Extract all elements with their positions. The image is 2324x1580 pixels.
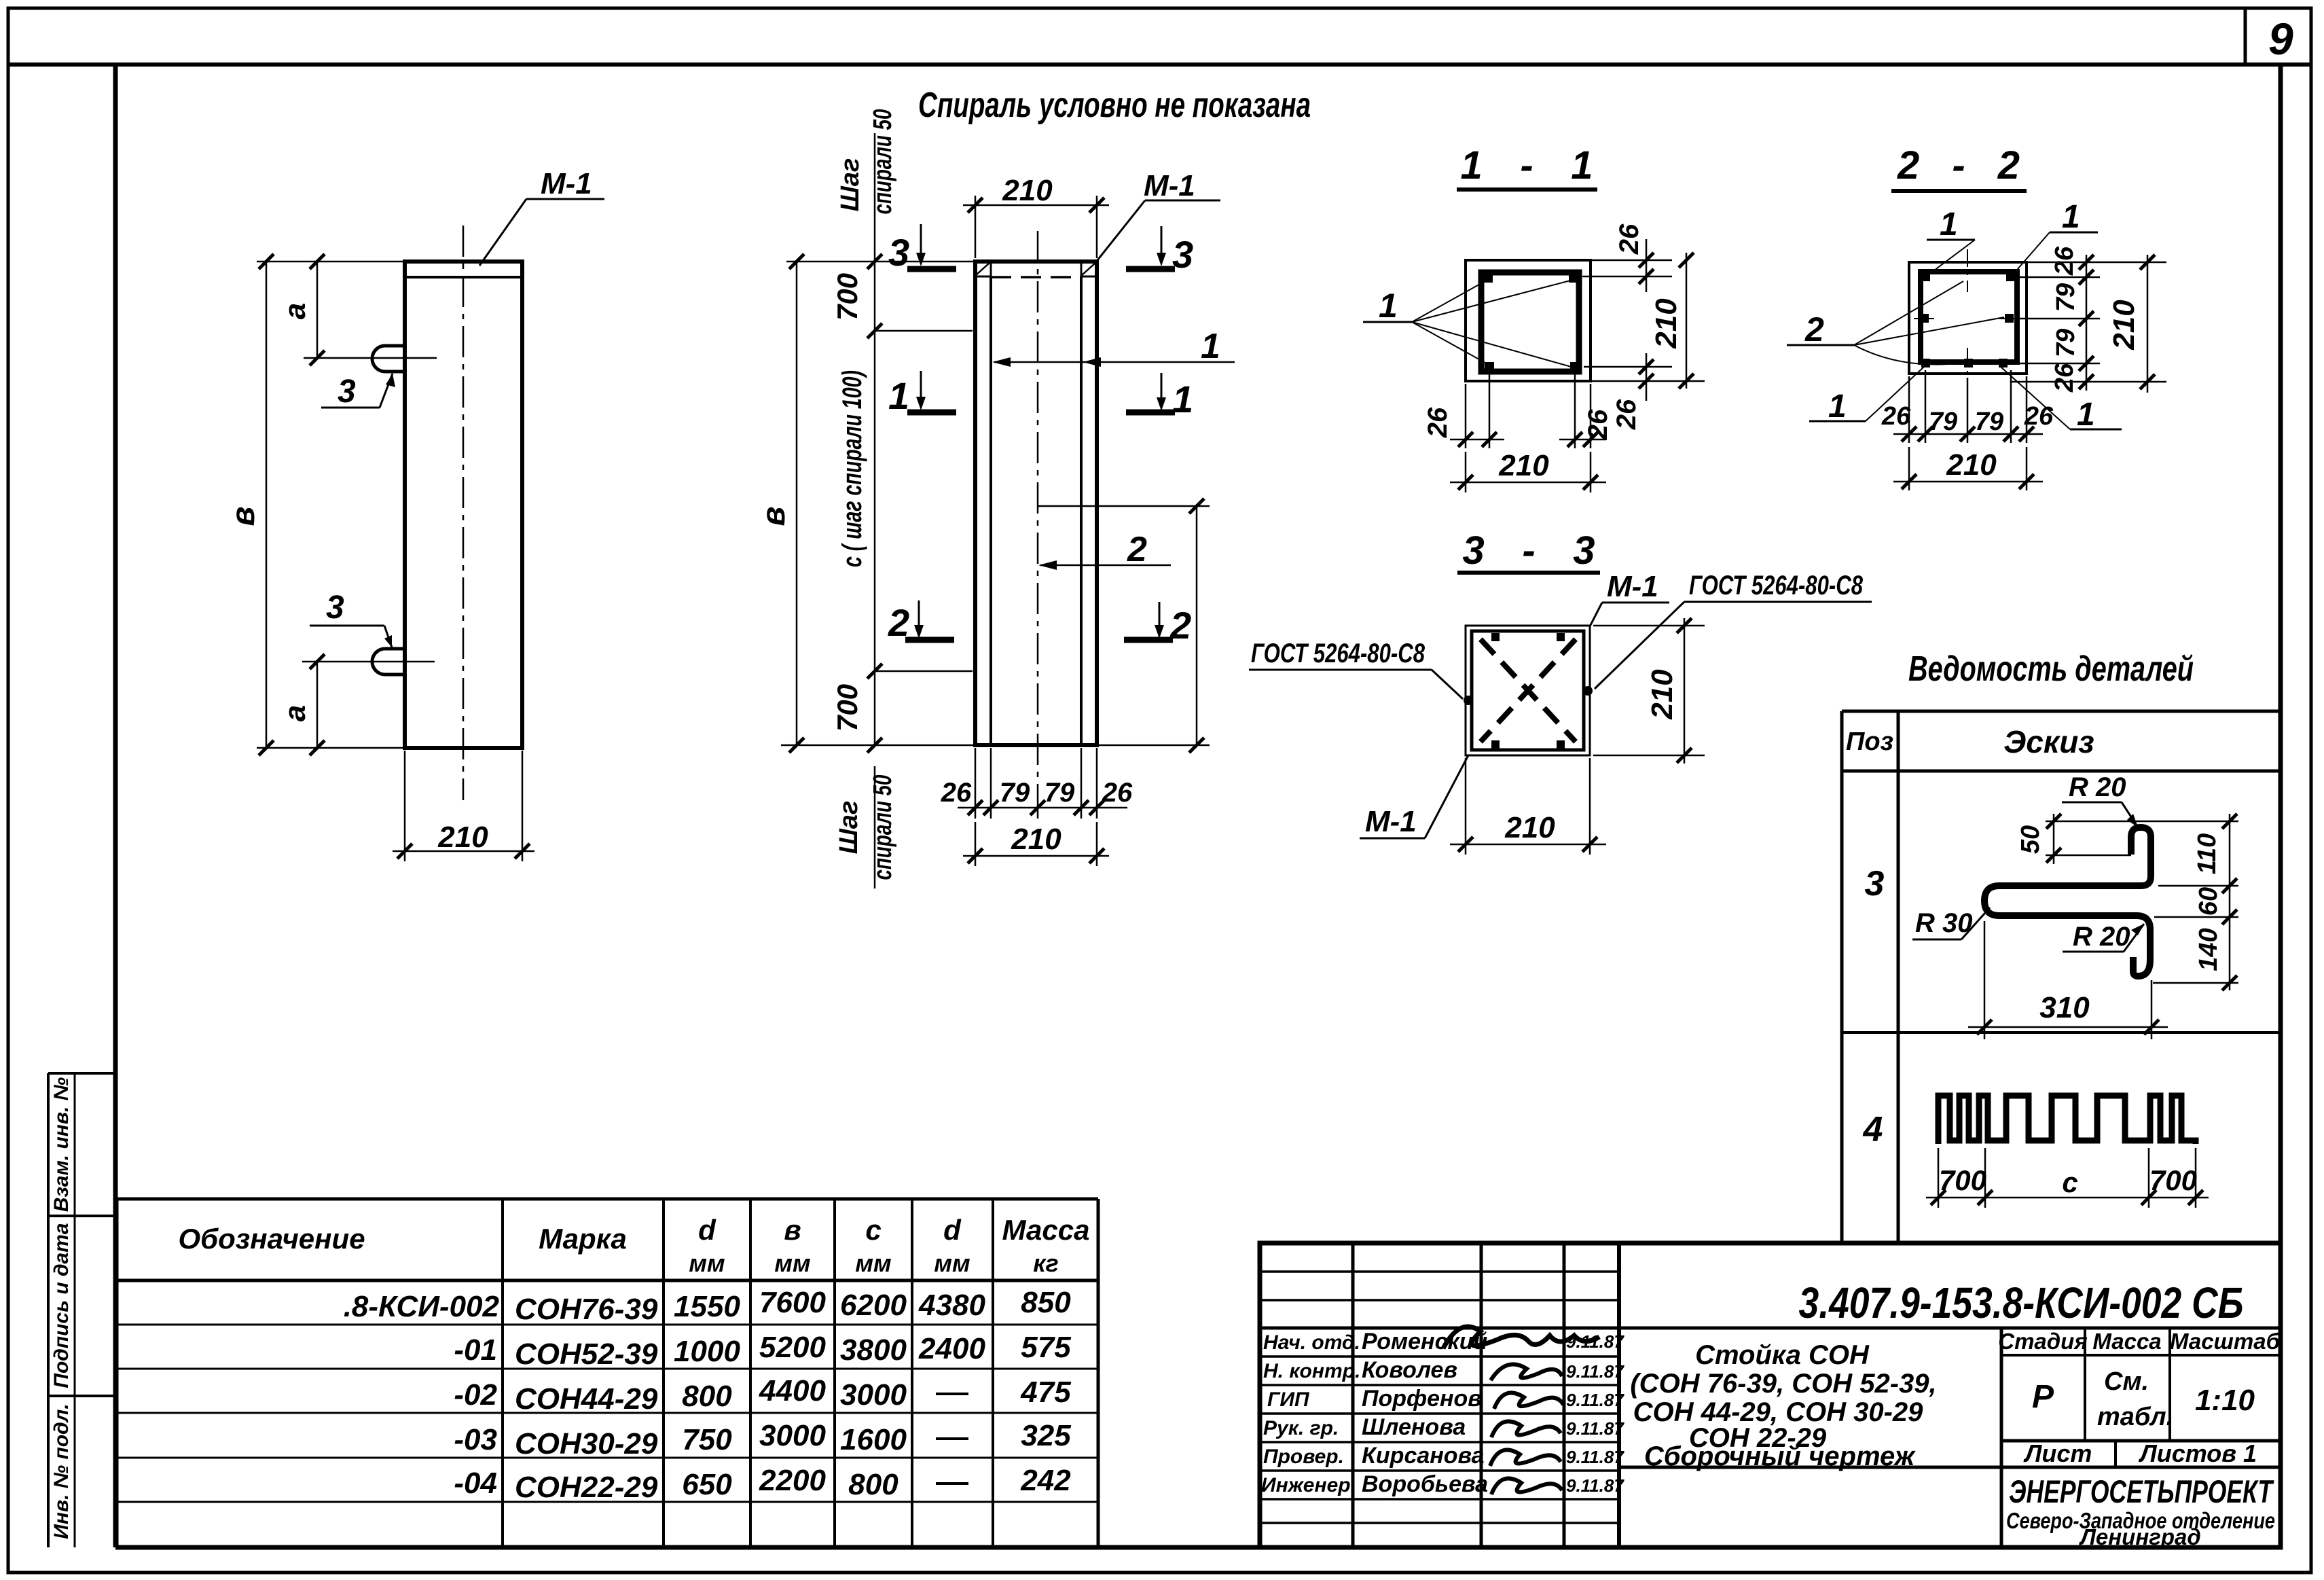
section 1-1 label 1 leaders [1363, 279, 1574, 367]
svg-text:-02: -02 [454, 1378, 497, 1412]
dimension 700 upper (side view) [831, 254, 973, 338]
margin stamp boxes outline [48, 1073, 115, 1547]
section 2-2 dimension 210 bottom [1893, 447, 2043, 490]
svg-text:9.11.87: 9.11.87 [1566, 1361, 1624, 1382]
signature scribble Порфенов [1494, 1393, 1563, 1409]
specification header d мм [689, 1214, 725, 1277]
dimension 210 (front view bottom) [393, 751, 534, 861]
svg-text:26: 26 [2024, 402, 2054, 431]
signature row Провер. [1263, 1443, 1624, 1469]
signature row Нач. отд. [1263, 1329, 1624, 1354]
svg-text:М-1: М-1 [541, 167, 592, 200]
svg-text:СОН44-29: СОН44-29 [515, 1382, 658, 1416]
side view M-1 plate left end [975, 262, 991, 276]
svg-text:800: 800 [682, 1380, 732, 1413]
section marker 2 left [888, 600, 954, 644]
svg-text:Ленинград: Ленинград [2079, 1524, 2201, 1549]
section 1-1 title [1457, 143, 1597, 190]
section 1-1 dimension 26 bottom right-2 [1559, 374, 1613, 448]
side view M-1 plate right end [1081, 262, 1097, 276]
svg-text:Подпись и дата: Подпись и дата [50, 1223, 73, 1388]
svg-text:1: 1 [2062, 199, 2080, 235]
svg-text:1: 1 [1828, 389, 1847, 425]
svg-text:-01: -01 [454, 1333, 497, 1367]
signature row Инженер [1261, 1471, 1624, 1497]
svg-text:R 20: R 20 [2073, 922, 2130, 952]
section 2-2 title [1891, 143, 2027, 191]
svg-text:Сборочный чертеж: Сборочный чертеж [1644, 1441, 1917, 1471]
svg-text:3800: 3800 [840, 1333, 907, 1367]
document title lines [1630, 1340, 1936, 1471]
svg-text:9: 9 [2268, 14, 2293, 64]
svg-text:140: 140 [2194, 928, 2223, 971]
svg-text:Нач. отд.: Нач. отд. [1263, 1331, 1360, 1354]
specification row 2 [454, 1331, 1071, 1371]
svg-text:79: 79 [1000, 778, 1030, 808]
svg-text:3: 3 [1172, 233, 1193, 276]
dimension c шаг спирали 100 (side view) [837, 370, 973, 679]
section 1-1 rebar dots [1483, 273, 1580, 372]
dimension 700 lower (side view) [831, 684, 882, 753]
svg-text:242: 242 [1020, 1464, 1071, 1497]
item 3 label R30 [1912, 908, 1990, 939]
svg-text:Спираль условно не показана: Спираль условно не показана [918, 86, 1311, 125]
item 3 bent bar sketch [1984, 827, 2151, 976]
svg-text:-04: -04 [454, 1467, 497, 1500]
svg-text:2: 2 [1127, 530, 1147, 569]
label 3 upper leader (front view) [321, 374, 395, 410]
svg-text:табл.: табл. [2097, 1403, 2173, 1431]
svg-text:a: a [278, 705, 312, 721]
section 3-3 outer outline [1466, 626, 1590, 755]
section marker 1 right [1126, 373, 1193, 420]
svg-text:d: d [698, 1214, 716, 1246]
section 3-3 title [1457, 528, 1600, 573]
svg-text:26: 26 [941, 778, 972, 808]
svg-text:Инженер: Инженер [1261, 1474, 1351, 1496]
side view post outline [975, 262, 1097, 745]
svg-text:СОН30-29: СОН30-29 [515, 1427, 658, 1460]
svg-text:ЭНЕРГОСЕТЬПРОЕКТ: ЭНЕРГОСЕТЬПРОЕКТ [2009, 1473, 2274, 1509]
section 2-2 centerline stubs [1914, 249, 2020, 375]
specification table frame [117, 1199, 1098, 1547]
section 3-3 plate square [1472, 631, 1584, 750]
svg-text:3 - 3: 3 - 3 [1463, 528, 1595, 573]
svg-text:2: 2 [1169, 604, 1191, 647]
item 3 label R20 bottom [2063, 922, 2144, 952]
svg-text:Н. контр.: Н. контр. [1263, 1360, 1360, 1382]
svg-text:1000: 1000 [674, 1335, 740, 1368]
svg-text:кг: кг [1033, 1249, 1058, 1277]
section 2-2 stirrup square [1921, 272, 2017, 362]
svg-text:Ведомость деталей: Ведомость деталей [1908, 649, 2194, 689]
svg-text:79: 79 [2052, 283, 2080, 312]
signature scribble Кирсанова [1490, 1450, 1561, 1466]
section 2-2 label 1 top-right [2013, 199, 2098, 274]
svg-text:26: 26 [1612, 399, 1641, 430]
inner frame right edge [2278, 65, 2283, 1547]
section 2-2 dimensions 26-79-79-26 bottom [1881, 370, 2054, 443]
leader 1 rebar callout [992, 327, 1235, 367]
svg-text:3000: 3000 [840, 1378, 907, 1412]
svg-text:210: 210 [1002, 174, 1053, 207]
svg-text:79: 79 [2052, 329, 2080, 357]
item 3 dimension 110-60-140 right [2153, 814, 2238, 990]
front view M-1 plate line [405, 276, 522, 279]
svg-text:Порфенов: Порфенов [1362, 1386, 1482, 1412]
svg-text:700: 700 [2149, 1164, 2197, 1196]
svg-text:210: 210 [1646, 669, 1679, 720]
svg-text:Листов 1: Листов 1 [2138, 1439, 2257, 1467]
svg-text:с: с [865, 1214, 881, 1246]
front view lower lug [372, 649, 405, 675]
svg-text:210: 210 [1946, 448, 1997, 482]
svg-text:575: 575 [1021, 1331, 1071, 1364]
svg-text:Поз: Поз [1846, 728, 1893, 756]
svg-text:ГИП: ГИП [1267, 1388, 1310, 1411]
svg-text:1600: 1600 [840, 1423, 907, 1456]
specification row 3 [454, 1374, 1071, 1416]
section marker 3 left [888, 224, 956, 274]
sheet number box divider [2244, 8, 2247, 65]
svg-text:26: 26 [1583, 409, 1613, 440]
svg-text:Воробьева: Воробьева [1362, 1471, 1488, 1497]
svg-text:79: 79 [1045, 778, 1075, 808]
front view centerline [462, 226, 465, 800]
svg-text:26: 26 [1614, 223, 1644, 255]
leader 2 rebar callout [1038, 530, 1171, 570]
svg-text:-03: -03 [454, 1423, 497, 1456]
svg-text:3: 3 [326, 590, 344, 626]
svg-text:110: 110 [2193, 833, 2221, 875]
svg-text:в: в [225, 507, 261, 526]
section 1-1 dimension 26 top right [1582, 223, 1672, 292]
side view left rebar line [989, 276, 992, 745]
svg-text:Эскиз: Эскиз [2003, 724, 2094, 759]
section 1-1 dimension 26 bottom left [1423, 374, 1504, 448]
svg-text:1 - 1: 1 - 1 [1461, 143, 1593, 187]
svg-text:СОН52-39: СОН52-39 [515, 1337, 658, 1371]
svg-text:9.11.87: 9.11.87 [1566, 1418, 1624, 1439]
specification row 1 [344, 1286, 1072, 1326]
specification row 3 dash [936, 1393, 968, 1395]
specification header с мм [855, 1214, 891, 1277]
item 4 spiral comb sketch [1938, 1096, 2196, 1144]
section 1-1 dimension 210 right [1591, 253, 1705, 389]
specification header Масса кг [1002, 1214, 1090, 1277]
svg-text:См.: См. [2104, 1367, 2149, 1396]
svg-text:Обозначение: Обозначение [178, 1223, 365, 1255]
signature scribble Коволев [1491, 1364, 1562, 1380]
svg-text:26: 26 [2050, 363, 2079, 393]
svg-text:475: 475 [1020, 1376, 1071, 1409]
label 3 lower leader (front view) [310, 590, 392, 647]
svg-text:Шленова: Шленова [1362, 1414, 1466, 1440]
svg-text:1: 1 [1172, 378, 1193, 420]
svg-text:с ( шаг спирали 100): с ( шаг спирали 100) [837, 370, 867, 567]
svg-text:Р: Р [2032, 1379, 2054, 1415]
svg-text:1: 1 [2077, 397, 2095, 433]
item 4 dimensions 700-c-700 [1926, 1148, 2209, 1208]
section 1-1 dimension 26 bottom right [1584, 353, 1672, 430]
svg-text:2400: 2400 [918, 1332, 985, 1365]
specification header в мм [774, 1214, 810, 1277]
svg-text:5200: 5200 [759, 1331, 826, 1364]
svg-text:210: 210 [1011, 823, 1061, 856]
svg-text:9.11.87: 9.11.87 [1566, 1475, 1624, 1496]
svg-text:700: 700 [1939, 1164, 1986, 1196]
signature row Н.контр. [1263, 1357, 1624, 1383]
section 1-1 stirrup square [1481, 272, 1579, 372]
svg-text:Роменский: Роменский [1362, 1329, 1488, 1354]
stamp value См. табл. [2097, 1367, 2173, 1431]
section 2-2 label 1 bottom-right [2001, 367, 2122, 433]
svg-text:50: 50 [2016, 825, 2045, 854]
side view right rebar line [1080, 276, 1083, 745]
svg-text:мм: мм [689, 1249, 725, 1277]
item 3 label R20 top [2062, 772, 2138, 827]
svg-text:Провер.: Провер. [1263, 1446, 1344, 1468]
svg-text:3: 3 [1865, 864, 1885, 903]
svg-text:R 20: R 20 [2069, 772, 2126, 802]
dimension a lower (front view) [278, 654, 435, 755]
specification row 5 [454, 1464, 1071, 1504]
signature scribble Шленова [1491, 1421, 1561, 1437]
label Шаг спирали 50 (bottom) [835, 766, 897, 888]
svg-text:М-1: М-1 [1144, 169, 1195, 202]
specification row 4 dash [936, 1437, 968, 1440]
svg-text:в: в [756, 507, 792, 526]
section marker 2 right [1124, 602, 1191, 647]
svg-text:Марка: Марка [539, 1223, 627, 1255]
svg-text:Коволев: Коволев [1362, 1357, 1457, 1383]
svg-text:Стадия: Стадия [1998, 1329, 2088, 1354]
item 3 dimension 310 [1968, 921, 2168, 1039]
dimension в (side view) [756, 254, 1210, 753]
label Шаг спирали 50 (top) [836, 109, 897, 215]
parts list table frame [1842, 711, 2281, 1243]
svg-text:мм: мм [934, 1249, 970, 1277]
dimension 210 (side view bottom) [963, 822, 1109, 866]
specification header d мм 2 [934, 1214, 970, 1277]
svg-text:2: 2 [1804, 310, 1824, 348]
dimension 26-79-79-26 (side view bottom) [941, 748, 1133, 819]
dimension d right (side view) [1038, 499, 1210, 753]
signature row Рук. гр. [1263, 1414, 1624, 1440]
svg-text:Рук. гр.: Рук. гр. [1263, 1417, 1339, 1439]
svg-text:2 - 2: 2 - 2 [1897, 143, 2020, 187]
svg-text:3.407.9-153.8-КСИ-002 СБ: 3.407.9-153.8-КСИ-002 СБ [1799, 1278, 2244, 1327]
svg-text:26: 26 [2050, 246, 2079, 276]
specification row 4 [454, 1419, 1071, 1460]
inner frame bottom edge [115, 1545, 2281, 1550]
svg-text:1: 1 [888, 374, 909, 417]
svg-text:М-1: М-1 [1365, 805, 1417, 838]
svg-text:60: 60 [2194, 887, 2223, 916]
svg-text:210: 210 [1504, 811, 1555, 844]
dimension 210 (side view top) [963, 174, 1109, 258]
section 2-2 rebar dots [1920, 272, 2015, 367]
svg-text:ГОСТ 5264-80-С8: ГОСТ 5264-80-С8 [1251, 639, 1426, 668]
svg-text:Масса: Масса [1002, 1214, 1090, 1246]
svg-text:спирали 50: спирали 50 [869, 775, 897, 880]
svg-text:Стойка СОН: Стойка СОН [1695, 1340, 1870, 1370]
section 1-1 dimension 210 bottom [1450, 449, 1606, 492]
svg-text:26: 26 [1881, 402, 1911, 431]
svg-text:(СОН 76-39, СОН 52-39,: (СОН 76-39, СОН 52-39, [1630, 1369, 1936, 1399]
svg-text:М-1: М-1 [1607, 570, 1658, 603]
specification row 5 dash [936, 1482, 968, 1485]
svg-text:Взам. инв. №: Взам. инв. № [50, 1077, 73, 1212]
svg-text:9.11.87: 9.11.87 [1566, 1447, 1624, 1467]
section 2-2 label 1 bottom-left [1809, 367, 1924, 425]
svg-text:ГОСТ 5264-80-С8: ГОСТ 5264-80-С8 [1689, 571, 1864, 600]
svg-text:Масштаб: Масштаб [2170, 1329, 2281, 1354]
svg-text:R 30: R 30 [1915, 908, 1973, 938]
section 1-1 concrete outline [1466, 260, 1591, 381]
svg-text:СОН22-29: СОН22-29 [515, 1471, 658, 1504]
section 3-3 anchor dots [1464, 633, 1593, 749]
label М-1 (side view) [1095, 169, 1220, 264]
svg-text:Инв. № подл.: Инв. № подл. [50, 1403, 73, 1539]
section 3-3 label М-1 bottom [1360, 755, 1468, 838]
svg-text:Шаг: Шаг [835, 801, 863, 855]
section 3-3 dimension 210 bottom [1450, 758, 1606, 855]
dimension line column (700 / c / 700) [874, 133, 876, 745]
svg-text:3000: 3000 [759, 1419, 826, 1452]
svg-text:1: 1 [1201, 327, 1220, 366]
svg-text:210: 210 [1650, 298, 1683, 349]
svg-text:3: 3 [888, 231, 909, 274]
svg-text:СОН76-39: СОН76-39 [515, 1293, 658, 1326]
section 3-3 diagonal anchors [1481, 639, 1576, 742]
svg-text:мм: мм [855, 1249, 891, 1277]
svg-text:Лист: Лист [2023, 1439, 2092, 1467]
svg-text:a: a [278, 303, 312, 319]
section marker 1 left [888, 371, 956, 417]
svg-text:2200: 2200 [759, 1464, 826, 1497]
section 2-2 label 1 top-left [1927, 207, 1975, 274]
svg-text:.8-КСИ-002: .8-КСИ-002 [344, 1290, 500, 1323]
section 2-2 dimension 210 right [2107, 255, 2155, 393]
svg-text:79: 79 [1975, 408, 2003, 436]
svg-text:1: 1 [1940, 207, 1958, 243]
svg-text:4400: 4400 [759, 1374, 826, 1407]
svg-text:спирали 50: спирали 50 [869, 109, 897, 215]
section 3-3 label М-1 top [1590, 570, 1669, 626]
svg-text:Масса: Масса [2092, 1329, 2161, 1354]
svg-text:210: 210 [2107, 300, 2141, 351]
svg-text:1:10: 1:10 [2195, 1384, 2255, 1417]
section 3-3 label ГОСТ 5264-80-С8 right [1595, 571, 1872, 689]
svg-text:в: в [784, 1214, 801, 1246]
label М-1 (front view) [479, 167, 604, 266]
svg-text:650: 650 [682, 1468, 732, 1501]
inner frame left edge [113, 65, 118, 1547]
svg-text:700: 700 [831, 684, 863, 732]
section 2-2 label 2 leaders [1787, 281, 2004, 365]
svg-text:Шаг: Шаг [836, 158, 865, 212]
svg-text:4: 4 [1863, 1110, 1883, 1149]
svg-text:Кирсанова: Кирсанова [1362, 1443, 1485, 1469]
section 2-2 dimensions 26-79-79-26 right [2009, 246, 2166, 393]
svg-text:7600: 7600 [759, 1286, 826, 1319]
dimension a upper (front view) [278, 254, 437, 365]
front view post outline [405, 262, 522, 748]
svg-text:d: d [943, 1214, 962, 1246]
svg-text:310: 310 [2039, 991, 2090, 1024]
top strip line [8, 62, 2311, 67]
svg-text:210: 210 [1498, 449, 1549, 482]
svg-text:26: 26 [1423, 407, 1453, 438]
svg-text:4380: 4380 [918, 1289, 985, 1322]
title block frame [1260, 1243, 2281, 1547]
side view centerline [1037, 231, 1039, 788]
svg-text:6200: 6200 [840, 1289, 907, 1322]
signature row ГИП [1267, 1386, 1624, 1412]
front view upper lug [372, 346, 405, 372]
svg-text:210: 210 [437, 821, 488, 854]
signature scribble Воробьева [1491, 1478, 1562, 1494]
side view M-1 plate hidden line [991, 276, 1081, 279]
svg-text:325: 325 [1021, 1419, 1071, 1452]
signature scribble Роменский [1443, 1327, 1599, 1348]
svg-text:1550: 1550 [674, 1290, 740, 1323]
svg-text:850: 850 [1021, 1286, 1071, 1319]
dimension в (front view) [225, 254, 405, 755]
section marker 3 right [1126, 226, 1193, 276]
svg-text:мм: мм [774, 1249, 810, 1277]
svg-text:3: 3 [338, 374, 356, 410]
section 3-3 dimension 210 right [1593, 618, 1705, 764]
svg-text:1: 1 [1379, 287, 1398, 325]
svg-text:с: с [2062, 1166, 2077, 1198]
svg-text:79: 79 [1929, 408, 1957, 436]
section 3-3 label ГОСТ 5264-80-С8 left [1249, 639, 1463, 699]
section 2-2 concrete outline [1909, 262, 2027, 374]
svg-text:700: 700 [831, 273, 863, 321]
svg-text:750: 750 [682, 1423, 732, 1456]
item 3 dimension 50 [2016, 814, 2238, 864]
svg-text:800: 800 [848, 1468, 898, 1501]
svg-text:26: 26 [1102, 778, 1133, 808]
svg-text:9.11.87: 9.11.87 [1566, 1390, 1624, 1410]
